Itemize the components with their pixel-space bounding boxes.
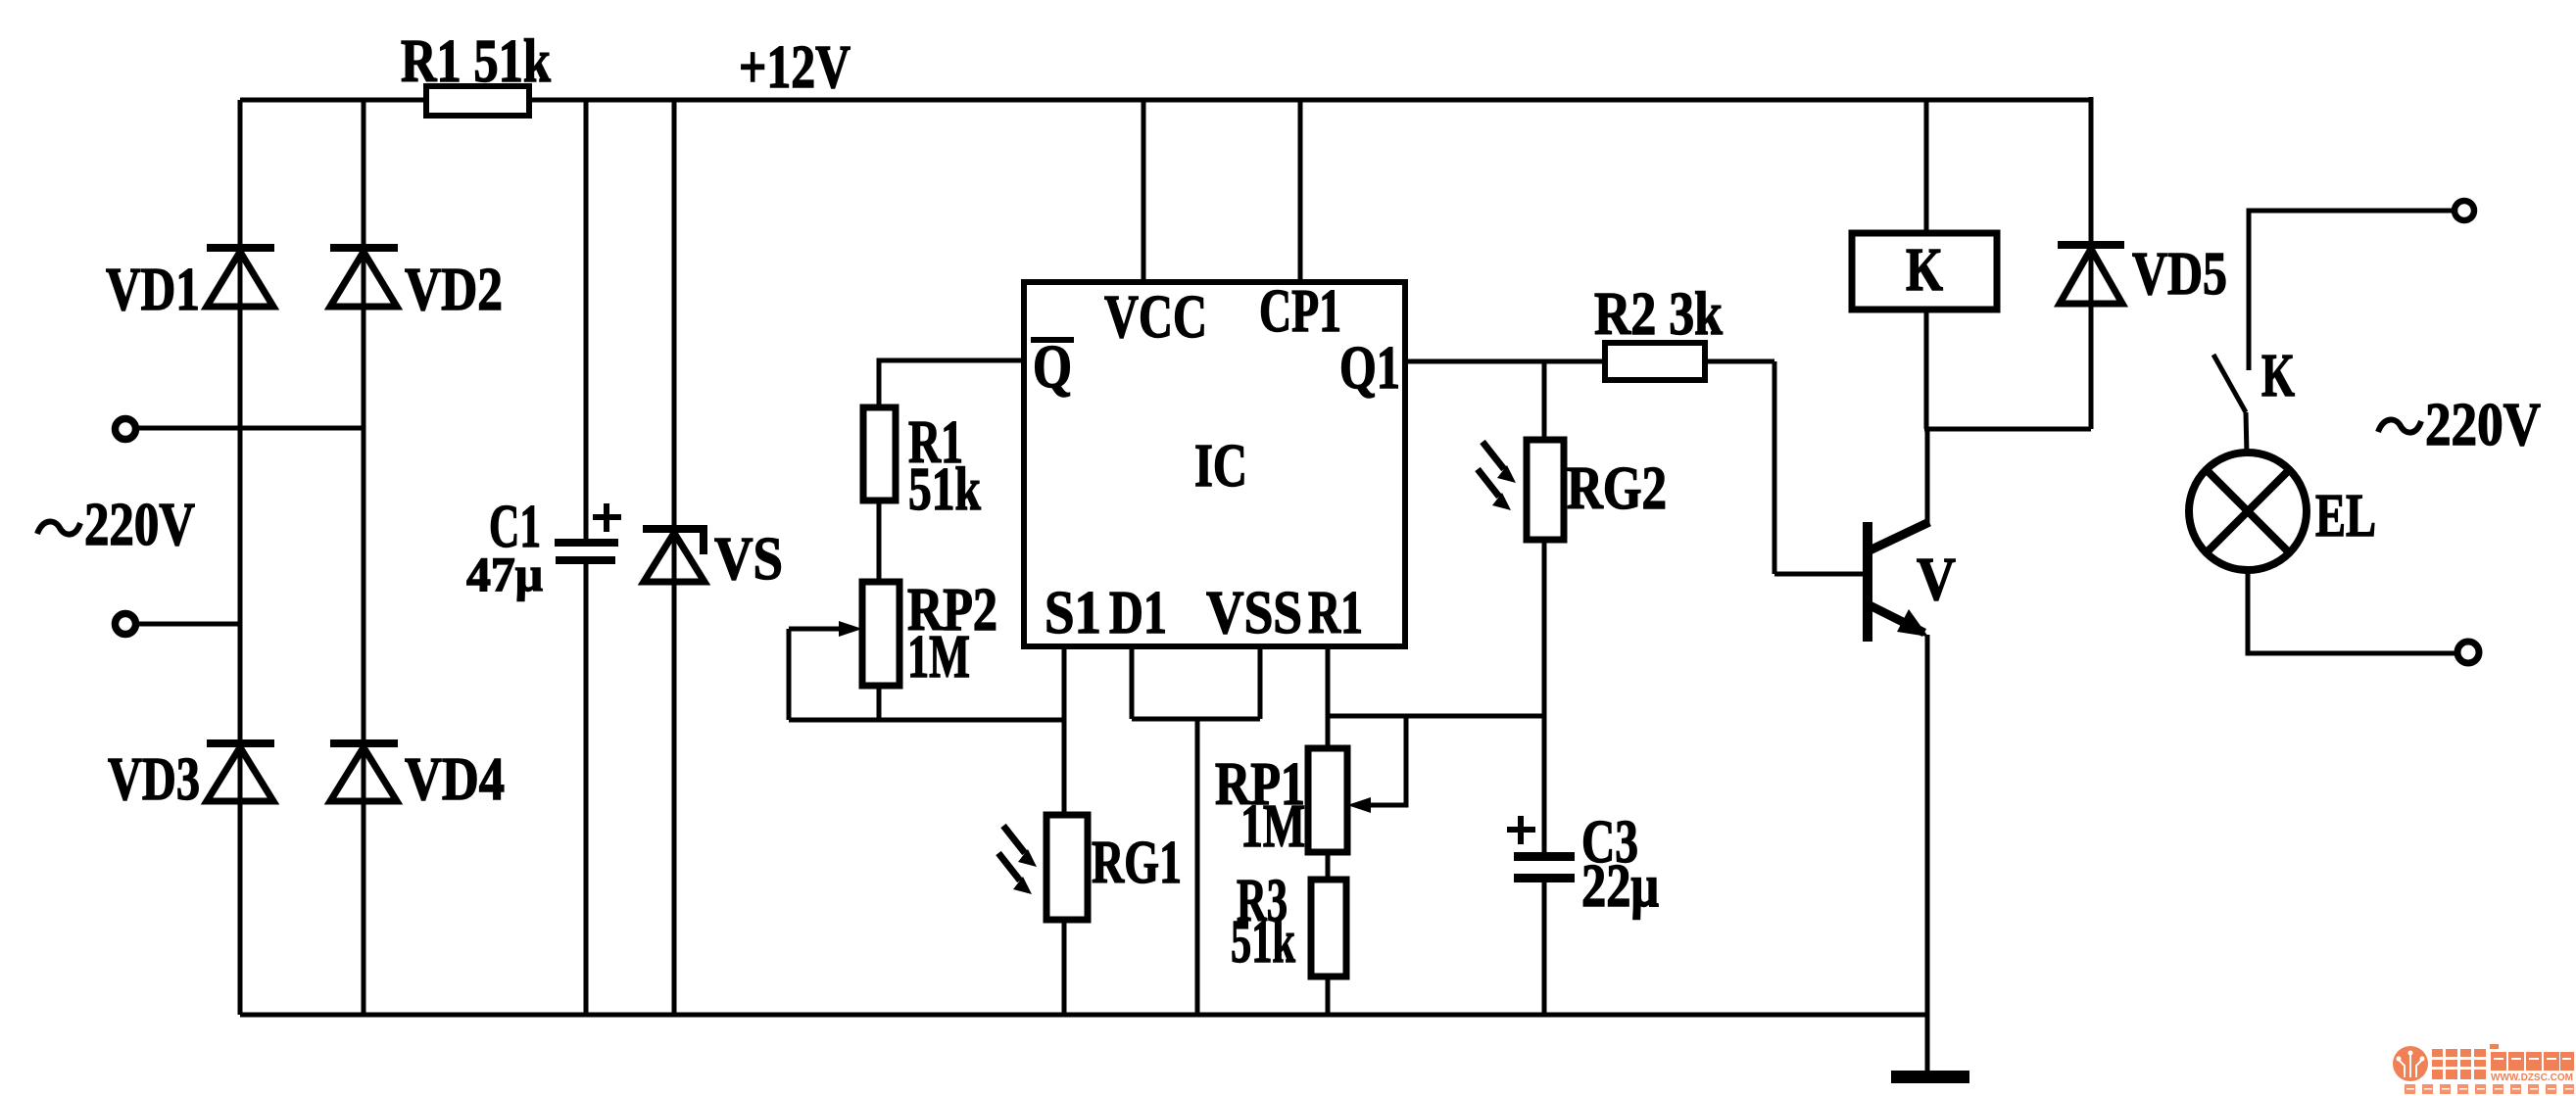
svg-text:Q: Q	[1033, 334, 1072, 401]
wire bottom ground rail	[240, 1013, 1927, 1018]
watermark logo circle	[2393, 1046, 2428, 1081]
pin Qbar label	[1031, 334, 1074, 401]
wire Q1 to R2	[1405, 359, 1605, 364]
wire lamp upper	[2249, 211, 2453, 370]
wire C1 branch lower	[584, 564, 589, 1015]
svg-text:1M: 1M	[907, 624, 970, 691]
svg-text:+12V: +12V	[739, 34, 851, 101]
svg-text:EL: EL	[2315, 483, 2376, 549]
svg-text:CP1: CP1	[1259, 278, 1341, 345]
label ~220V left	[37, 492, 195, 558]
diode VD4	[330, 739, 398, 801]
wire Qbar to R1	[879, 360, 1024, 407]
svg-text:IC: IC	[1194, 433, 1247, 500]
wire C3 bottom	[1542, 882, 1547, 1015]
wire base branch vertical	[1773, 361, 1777, 574]
wire D1-VSS link	[1132, 717, 1260, 722]
resistor R3 51k	[1311, 880, 1346, 977]
diode VD5	[2058, 241, 2124, 304]
svg-text:VD3: VD3	[108, 746, 200, 813]
transistor V	[1863, 522, 1929, 642]
wire relay K branch	[1924, 100, 1929, 233]
diode VD1	[207, 244, 274, 307]
svg-text:RG2: RG2	[1567, 455, 1667, 522]
wire R3 bottom	[1326, 977, 1331, 1015]
wire RP2 bottom	[877, 686, 882, 720]
wire RG1 bottom	[1062, 920, 1067, 1015]
wire K bottom	[1924, 310, 1929, 429]
wire D1 pin down	[1130, 646, 1135, 719]
photoresistor RG1	[1046, 815, 1088, 920]
wire VCC pin to rail	[1142, 100, 1146, 282]
light arrows RG2	[1478, 442, 1516, 510]
wire collector up	[1925, 429, 1930, 525]
svg-text:V: V	[1917, 547, 1956, 613]
wire RP2 wiper loop	[787, 629, 792, 720]
wire AC input lower	[137, 622, 240, 627]
IC box	[1024, 282, 1405, 646]
wire VD5 branch	[2089, 97, 2094, 429]
svg-text:1M: 1M	[1240, 793, 1305, 860]
svg-text:K: K	[1906, 237, 1943, 304]
wire node S1 horizontal	[789, 718, 1064, 723]
svg-text:47μ: 47μ	[466, 547, 543, 601]
potentiometer RP2 1M	[862, 582, 899, 686]
light arrows RG1	[998, 826, 1037, 894]
svg-text:220V: 220V	[84, 492, 195, 558]
wire C1 branch upper	[584, 100, 589, 539]
terminal lamp upper	[2454, 201, 2474, 220]
svg-text:VCC: VCC	[1104, 284, 1207, 351]
wiper arrow RP2	[789, 621, 862, 637]
svg-text:VD1: VD1	[106, 257, 200, 323]
resistor R1 51k (top rail)	[426, 86, 529, 116]
wire base branch horizontal	[1774, 572, 1865, 577]
wire left branch VD1/VD3	[238, 100, 243, 1015]
svg-text:VSS: VSS	[1206, 580, 1302, 646]
svg-text:R2 3k: R2 3k	[1594, 281, 1723, 348]
wire emitter down	[1925, 635, 1930, 1073]
wire node R1 horizontal	[1328, 714, 1544, 719]
photoresistor RG2	[1527, 440, 1564, 540]
polarity + of C1	[593, 503, 621, 532]
wire ground drop	[1195, 719, 1200, 1015]
wiper arrow RP1	[1347, 716, 1406, 813]
svg-text:220V: 220V	[2425, 392, 2541, 458]
resistor R1 51k (vertical)	[863, 407, 896, 500]
watermark text blocks	[2432, 1044, 2574, 1079]
wire RP1 to R3	[1326, 852, 1331, 880]
wire +12V top rail right segment	[529, 98, 2091, 103]
svg-text:51k: 51k	[1231, 909, 1295, 976]
svg-text:WWW.DZSC.COM: WWW.DZSC.COM	[2491, 1072, 2573, 1083]
svg-text:VD2: VD2	[405, 257, 503, 323]
svg-text:VD5: VD5	[2132, 241, 2227, 308]
svg-text:D1: D1	[1109, 580, 1167, 646]
terminal AC input upper	[116, 419, 136, 440]
wire R2 to base corner	[1705, 359, 1774, 364]
relay coil K	[1852, 233, 1997, 310]
watermark slogan blocks	[2405, 1084, 2574, 1094]
svg-text:K: K	[2261, 343, 2295, 409]
terminal lamp lower	[2457, 642, 2479, 663]
diode VD2	[330, 244, 398, 307]
svg-text:R1: R1	[1308, 580, 1363, 646]
potentiometer RP1 1M	[1308, 748, 1347, 852]
switch K blade	[2213, 355, 2247, 454]
wire VS branch	[672, 100, 677, 1015]
wire R1 to RP2	[877, 500, 882, 582]
wire RG2 drop	[1542, 361, 1547, 440]
lamp EL	[2189, 453, 2307, 570]
wire collector junction to VD5	[1924, 427, 2091, 432]
svg-text:R1 51k: R1 51k	[401, 28, 551, 95]
wire R1 pin down	[1326, 646, 1331, 748]
ground	[1891, 1071, 1969, 1083]
wire RG2 to C3	[1542, 540, 1547, 852]
wire VSS pin down	[1258, 646, 1263, 719]
resistor R2 3k	[1605, 343, 1705, 380]
svg-text:VS: VS	[714, 526, 783, 593]
terminal AC input lower	[116, 614, 136, 635]
svg-text:RG1: RG1	[1092, 830, 1182, 896]
svg-text:VD4: VD4	[405, 746, 505, 813]
label ~220V right	[2378, 392, 2541, 458]
diode VD3	[207, 739, 274, 801]
wire AC input upper	[137, 426, 364, 431]
zener diode VS	[643, 525, 707, 582]
svg-text:S1: S1	[1045, 580, 1101, 646]
wire second branch VD2/VD4	[362, 100, 366, 1015]
wire CP1 pin to rail	[1298, 100, 1303, 282]
svg-text:22μ: 22μ	[1581, 853, 1659, 920]
svg-text:51k: 51k	[908, 456, 981, 523]
capacitor C1	[555, 539, 618, 564]
wire lamp lower	[2248, 570, 2455, 653]
svg-text:Q1: Q1	[1339, 335, 1400, 402]
wire S1 pin down	[1062, 646, 1067, 815]
polarity + of C3	[1507, 816, 1535, 844]
wire +12V top rail left segment	[240, 98, 428, 103]
capacitor C3	[1514, 852, 1575, 882]
